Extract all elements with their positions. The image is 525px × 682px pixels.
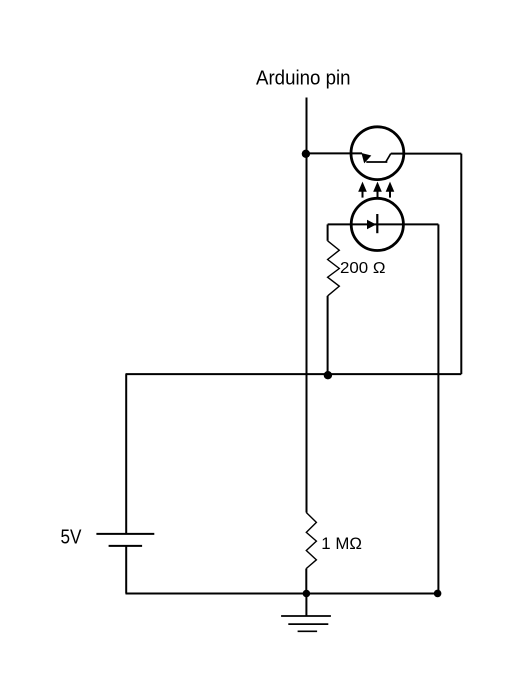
node A junction dot	[302, 150, 310, 158]
wire: right vertical from Q1 corner down to mid rail	[460, 154, 462, 375]
wire: node A right to phototransistor Q1 emitter	[306, 152, 362, 154]
wire: mid rail down to battery B1 positive plate	[125, 374, 127, 534]
wire: LED left corner down to resistor R1	[327, 224, 329, 240]
resistor R2 zigzag (1 MOhm)	[306, 513, 316, 569]
svg-text:200 Ω: 200 Ω	[340, 260, 386, 277]
wire: bottom rail	[126, 593, 438, 595]
wire: battery B1 negative plate down to bottom rail	[125, 546, 127, 594]
wire: node A down to resistor R2 (1 MOhm)	[306, 154, 308, 513]
wire: mid horizontal rail	[126, 373, 462, 375]
battery B1 (5V)	[96, 534, 154, 546]
node D junction dot	[434, 590, 442, 598]
node B junction dot	[324, 371, 332, 379]
svg-text:Arduino pin: Arduino pin	[256, 68, 351, 90]
node C junction dot	[303, 590, 311, 598]
wire: phototransistor Q1 collector right to corner	[405, 153, 462, 155]
ground	[281, 594, 331, 632]
light arrow 1	[358, 182, 367, 198]
phototransistor Q1	[351, 127, 405, 180]
wire: resistor R2 down to bottom rail	[305, 569, 307, 594]
svg-text:5V: 5V	[61, 526, 83, 548]
resistor R1 zigzag (200 Ohm)	[328, 241, 340, 296]
svg-text:1 MΩ: 1 MΩ	[321, 534, 362, 553]
wire: LED right corner down to bottom rail	[437, 224, 439, 593]
light arrow 3	[386, 182, 395, 198]
wire: resistor R1 down to node B	[327, 296, 329, 375]
wire: LED D1 horizontal lead line	[328, 223, 439, 225]
light arrow 2	[373, 182, 382, 199]
LED D1	[351, 198, 403, 250]
wire: from Arduino pin label down to node A	[306, 98, 308, 154]
